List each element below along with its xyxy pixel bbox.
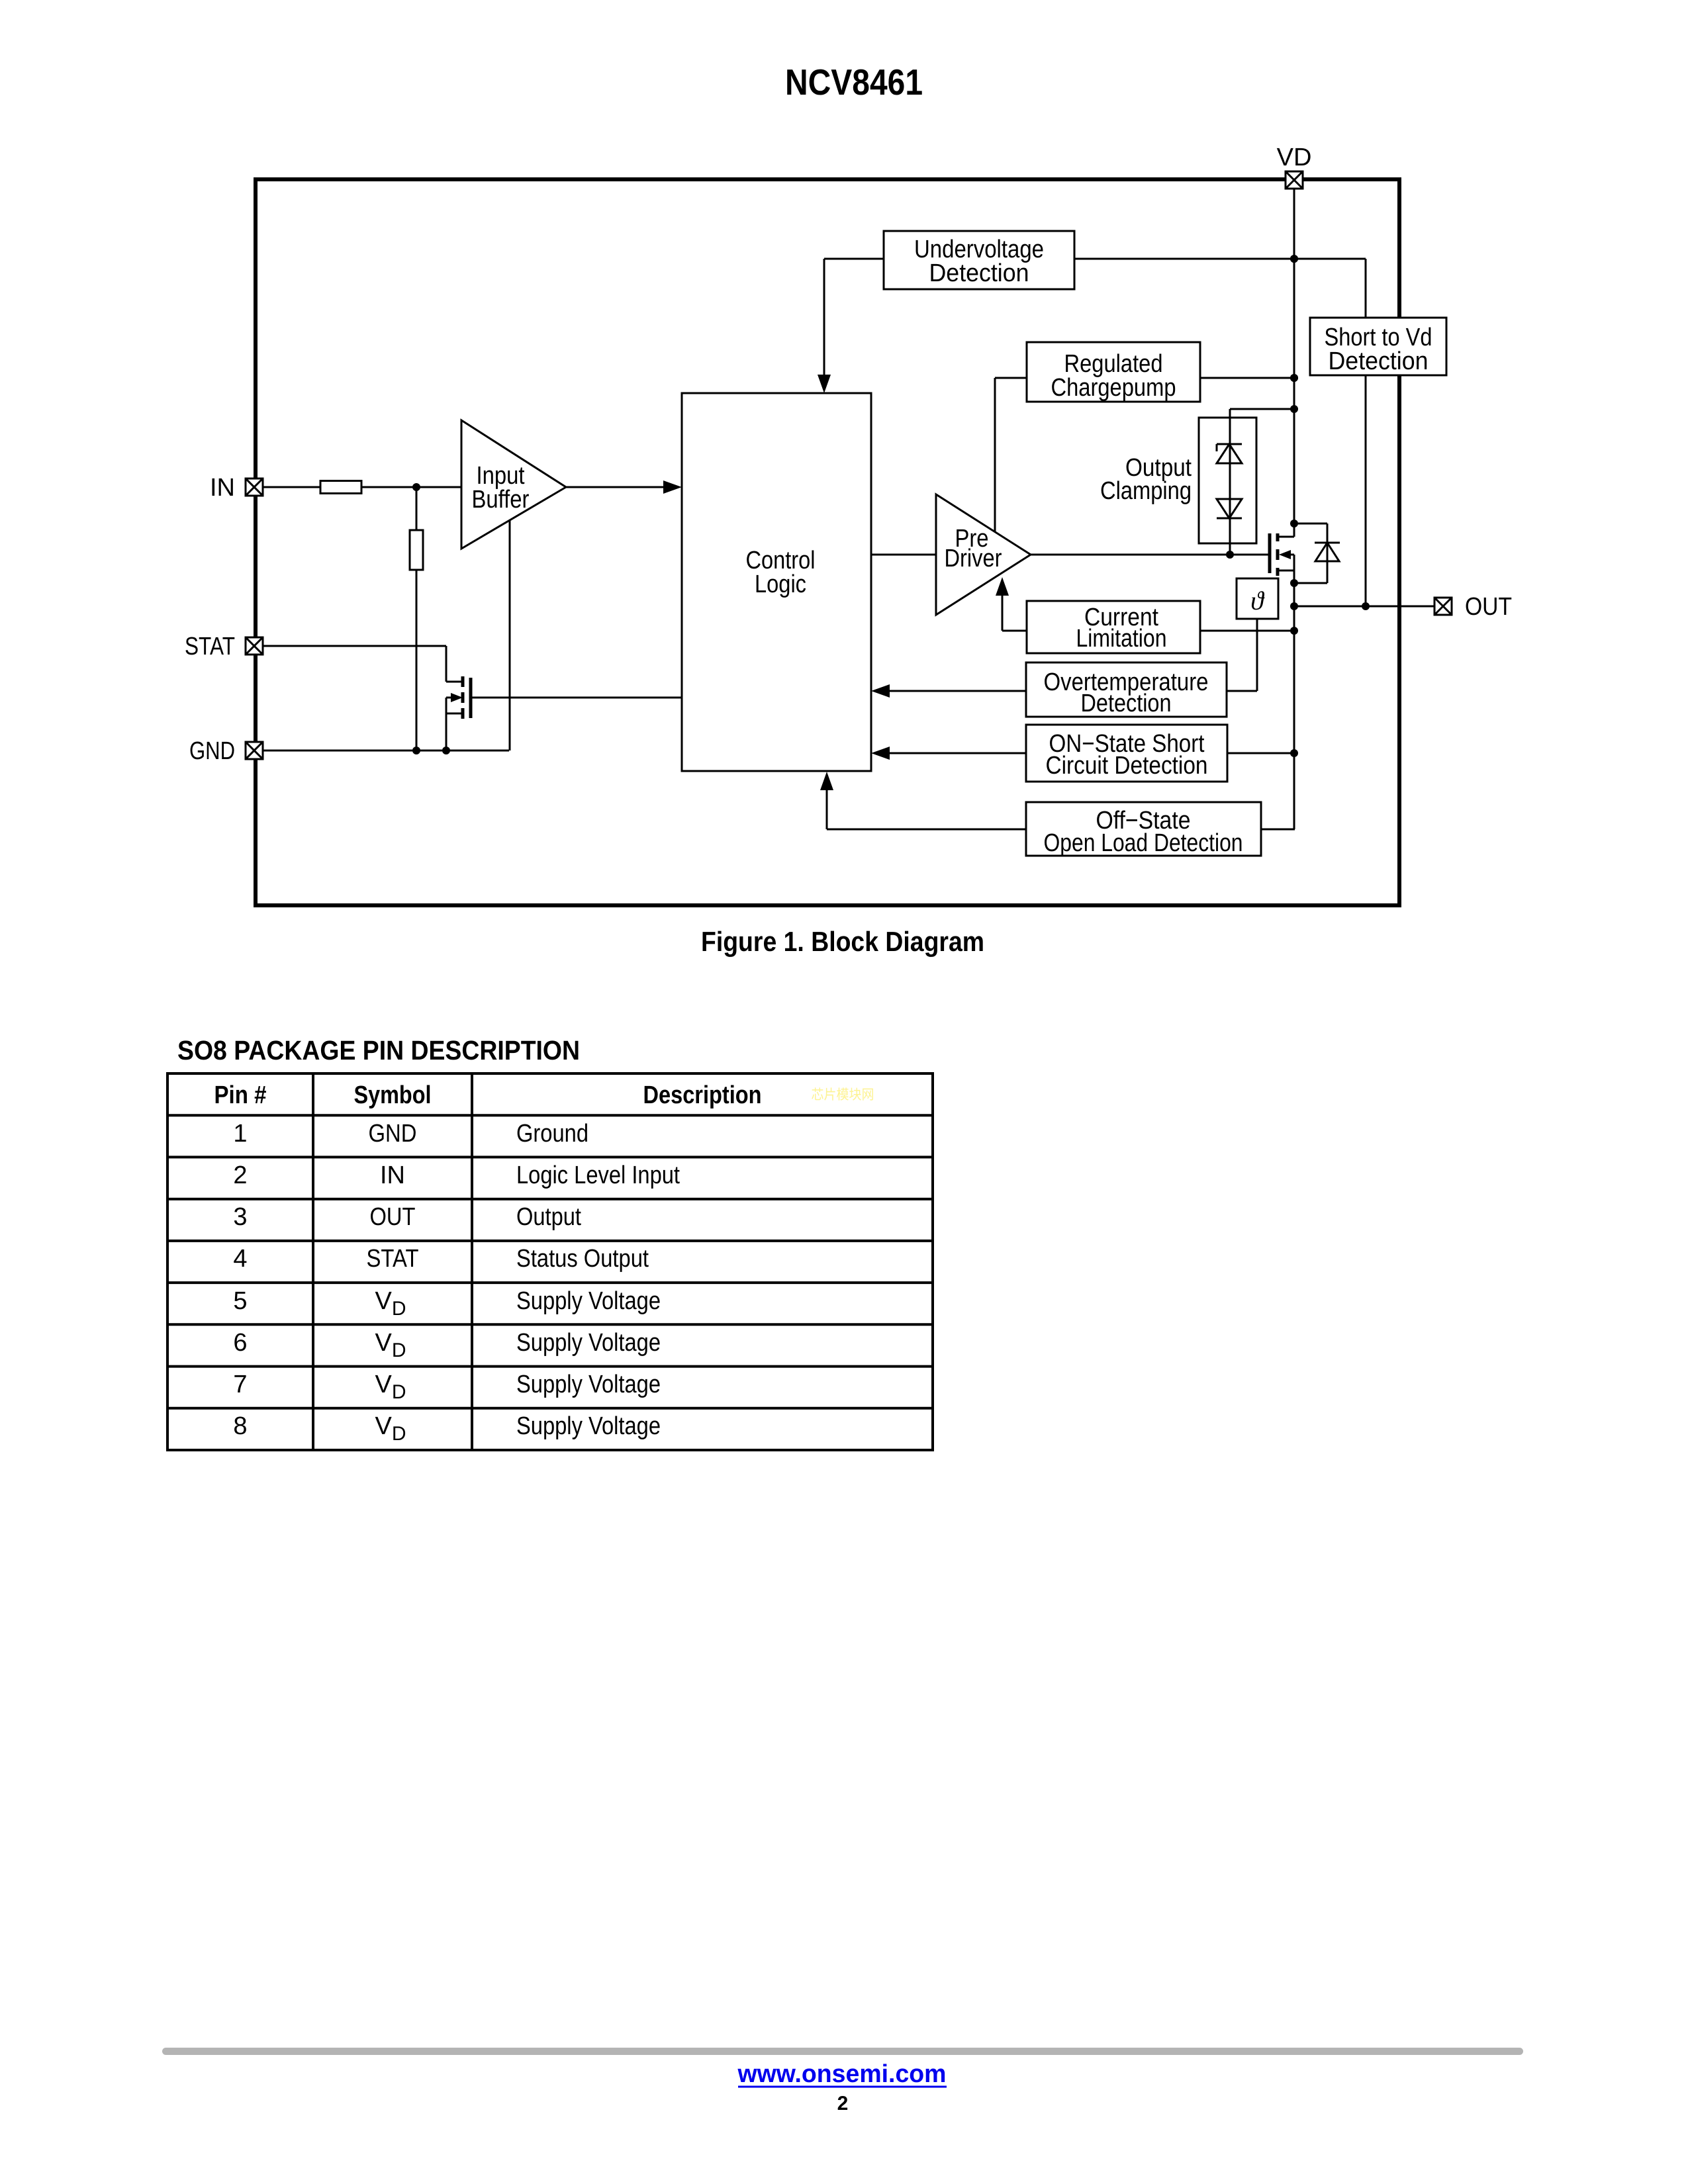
svg-text:芯片模块网: 芯片模块网: [812, 1087, 874, 1103]
svg-text:www.onsemi.com: www.onsemi.com: [737, 2060, 947, 2088]
